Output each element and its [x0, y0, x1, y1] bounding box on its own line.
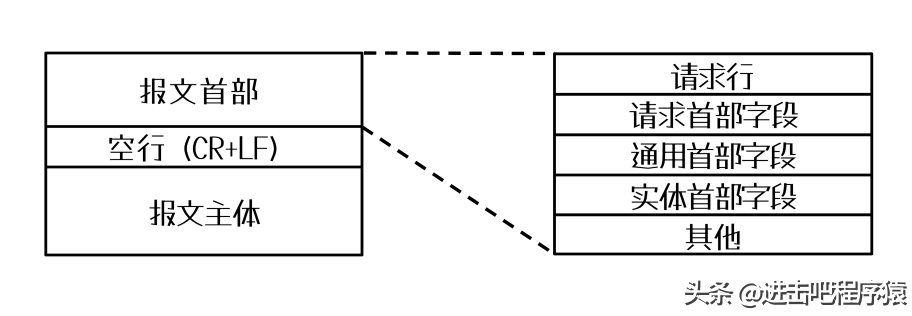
watermark shadow: 头条 @进击吧程序猿: [685, 280, 907, 308]
watermark text (white): 头条 @进击吧程序猿: [683, 278, 905, 306]
label: 其他: [686, 224, 740, 251]
label: 报文首部: [140, 77, 258, 104]
label: 请求首部字段: [629, 101, 798, 129]
right box divider 4: [555, 213, 872, 216]
right box divider 2: [555, 133, 872, 136]
label: 通用首部字段: [631, 142, 796, 169]
left box divider 2 (below 空行): [46, 166, 362, 169]
right box: header fields outer frame: [555, 54, 872, 254]
left box divider 1 (below 报文首部): [46, 125, 362, 128]
label: 报文主体: [149, 199, 260, 227]
label: 实体首部字段: [632, 183, 797, 211]
label: 空行 (CR+LF): [109, 134, 277, 162]
dashed connector: top horizontal: [364, 51, 555, 55]
right box divider 3: [555, 174, 872, 177]
label: 请求行: [671, 63, 753, 91]
right box divider 1: [555, 93, 872, 96]
left box: message outer frame: [46, 53, 362, 255]
dashed connector: diagonal: [363, 127, 554, 253]
